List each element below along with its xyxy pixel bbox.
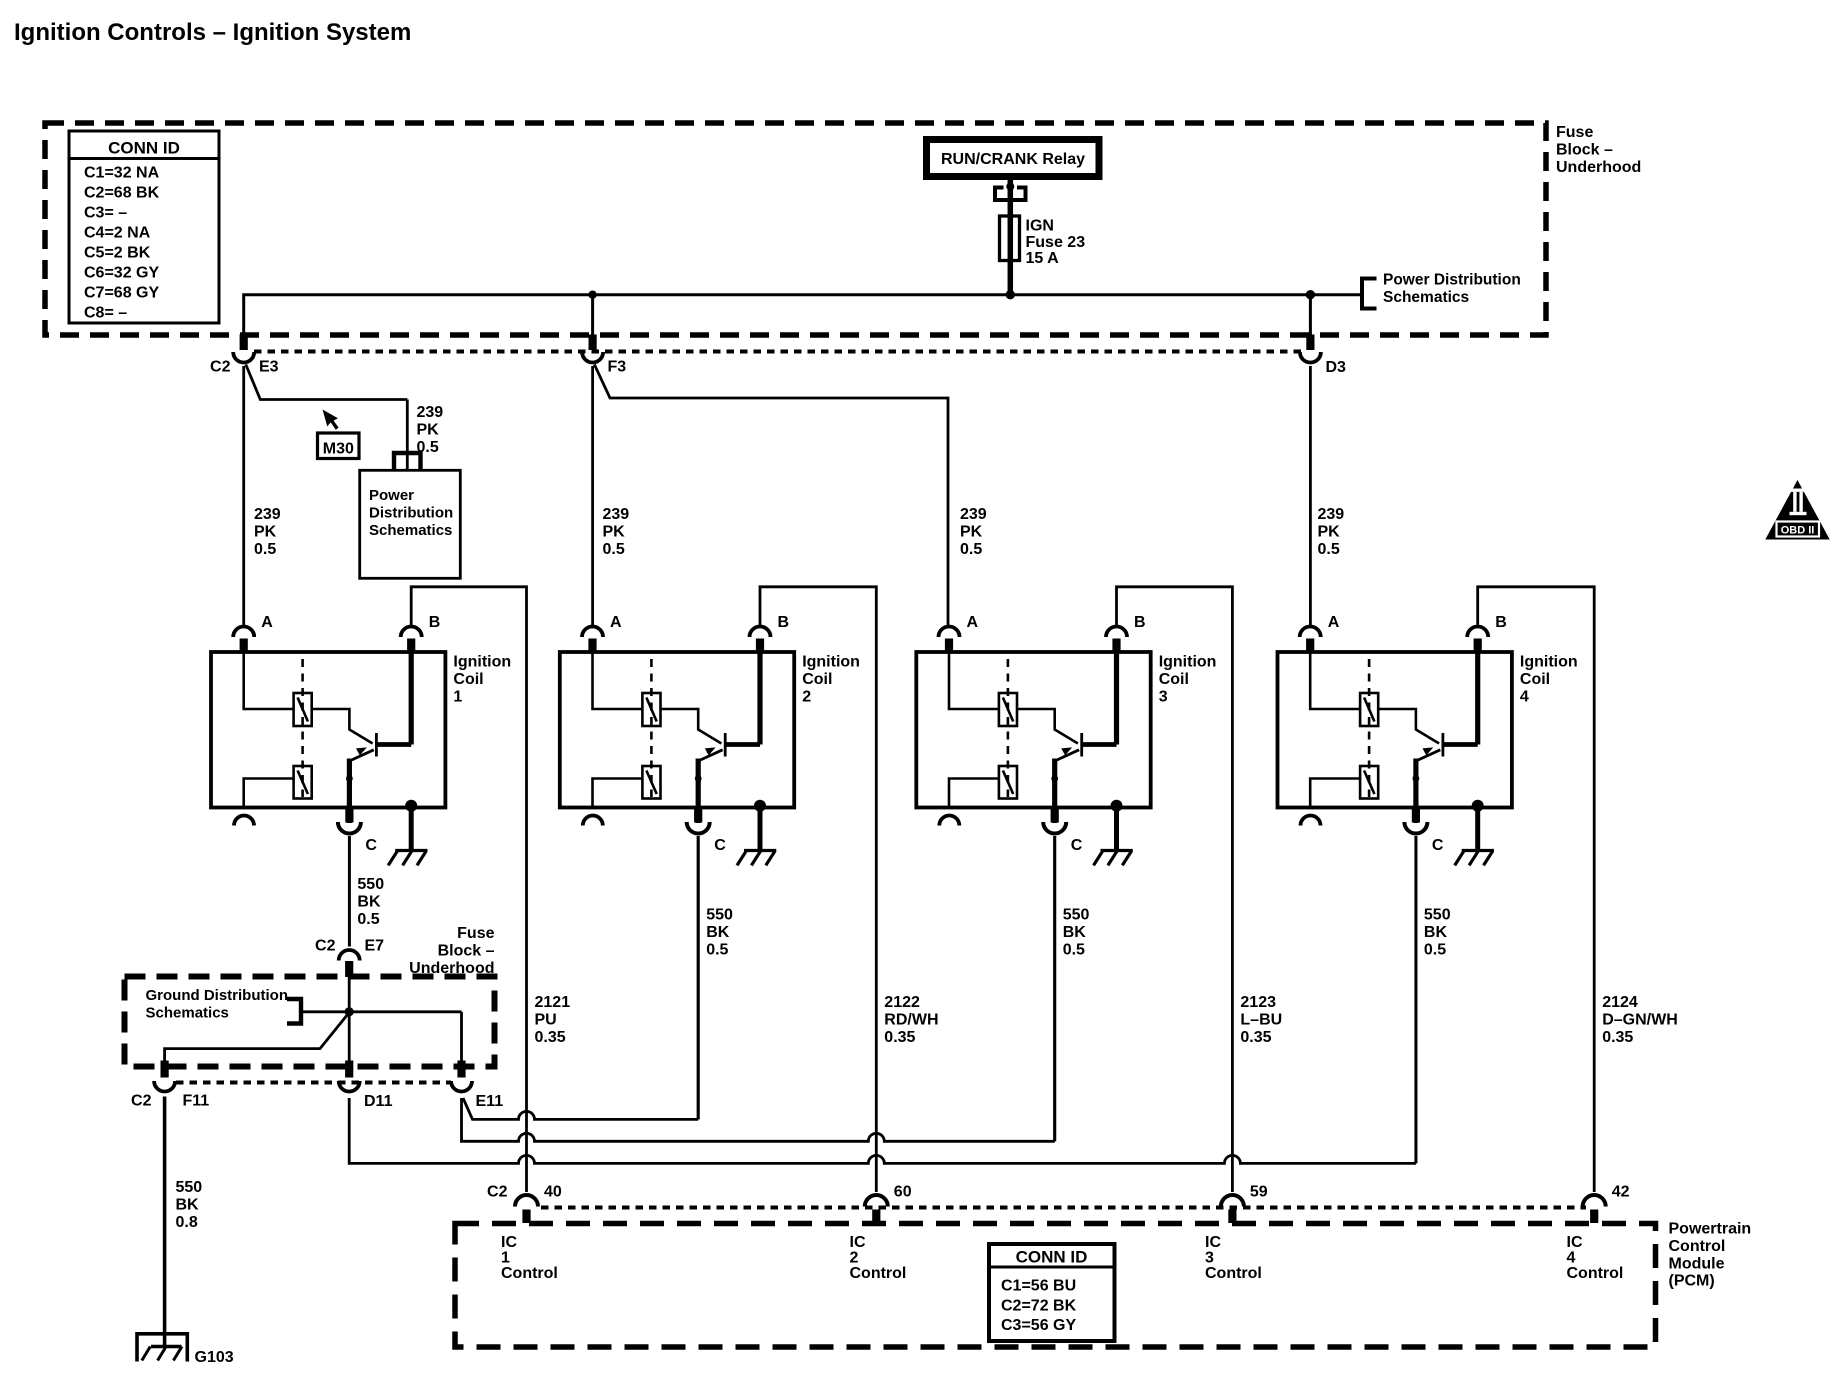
svg-text:60: 60 bbox=[894, 1184, 912, 1201]
svg-text:Module: Module bbox=[1669, 1255, 1725, 1272]
junction fuse output bbox=[1006, 290, 1015, 299]
svg-text:Control: Control bbox=[1567, 1265, 1624, 1282]
ignition coil 1 label bbox=[453, 654, 511, 706]
svg-text:C4=2 NA: C4=2 NA bbox=[84, 224, 151, 241]
svg-text:C2: C2 bbox=[315, 938, 336, 955]
label 239 PK 0.5 (coil 3 feed) bbox=[960, 506, 987, 558]
ignition coil 2 box bbox=[560, 652, 794, 808]
svg-text:239: 239 bbox=[417, 404, 444, 421]
svg-text:0.5: 0.5 bbox=[960, 541, 982, 558]
svg-text:PU: PU bbox=[535, 1011, 557, 1028]
power distribution schematics tab bbox=[1362, 272, 1521, 309]
svg-text:D3: D3 bbox=[1326, 359, 1347, 376]
fuse block underhood label (lower) bbox=[409, 925, 494, 977]
ignition coil 4 box bbox=[1278, 652, 1512, 808]
svg-text:C2: C2 bbox=[487, 1184, 508, 1201]
svg-text:A: A bbox=[967, 614, 979, 631]
svg-text:RUN/CRANK Relay: RUN/CRANK Relay bbox=[941, 151, 1085, 168]
svg-text:0.5: 0.5 bbox=[357, 911, 379, 928]
coil 3 pin C bbox=[1043, 809, 1083, 855]
wire E11 drop bbox=[460, 1012, 463, 1062]
coil 1 pin C bbox=[338, 809, 378, 855]
svg-text:0.5: 0.5 bbox=[1424, 941, 1446, 958]
svg-text:1: 1 bbox=[453, 688, 462, 705]
svg-text:0.5: 0.5 bbox=[1318, 541, 1340, 558]
svg-text:Ignition Controls – Ignition S: Ignition Controls – Ignition System bbox=[14, 19, 411, 46]
svg-text:550: 550 bbox=[176, 1179, 203, 1196]
coil 4 internal wire from B bbox=[1475, 652, 1480, 745]
svg-text:Distribution: Distribution bbox=[369, 504, 453, 521]
svg-text:Power: Power bbox=[369, 487, 414, 504]
transistor Q2 collector wire bbox=[661, 709, 722, 744]
wire 550 BK coil 2 ground drop bbox=[697, 836, 700, 1119]
svg-text:IC: IC bbox=[1205, 1234, 1221, 1251]
svg-text:RD/WH: RD/WH bbox=[884, 1011, 938, 1028]
wire coil 3 ground to E11 bbox=[462, 1098, 1055, 1141]
svg-text:C1=32 NA: C1=32 NA bbox=[84, 164, 160, 181]
svg-text:Ignition: Ignition bbox=[802, 654, 860, 671]
svg-text:BK: BK bbox=[1063, 924, 1087, 941]
ground distribution dashed boundary bbox=[125, 977, 495, 1067]
ignition coil 1 box bbox=[211, 652, 445, 808]
fuse block underhood label bbox=[1556, 124, 1641, 176]
coil 3 secondary output wire bbox=[949, 779, 999, 807]
coil 3 spare cavity bbox=[939, 816, 959, 826]
svg-text:E11: E11 bbox=[476, 1093, 504, 1110]
wire ignition control coil 3 (B loop) bbox=[1117, 587, 1233, 1192]
svg-text:Coil: Coil bbox=[1520, 671, 1550, 688]
svg-text:C7=68 GY: C7=68 GY bbox=[84, 284, 159, 301]
coil 2 emitter-secondary junction bbox=[695, 775, 702, 782]
svg-text:PK: PK bbox=[603, 523, 626, 540]
svg-text:Block –: Block – bbox=[438, 942, 495, 959]
wire coil 2 ground to E11 bbox=[463, 1098, 698, 1119]
wire ignition voltage bus bbox=[244, 295, 1311, 335]
svg-text:550: 550 bbox=[706, 907, 733, 924]
coil 3 primary winding bbox=[999, 693, 1017, 726]
svg-text:3: 3 bbox=[1159, 688, 1168, 705]
transistor Q3 base lead bbox=[1082, 742, 1117, 747]
svg-text:2123: 2123 bbox=[1240, 994, 1276, 1011]
terminal into power distribution box bbox=[394, 453, 421, 470]
connector C2 pin 42 (PCM) bbox=[1583, 1184, 1630, 1224]
coil 2 pin C bbox=[687, 809, 727, 855]
coil 2 secondary winding bbox=[642, 766, 660, 799]
svg-text:CONN ID: CONN ID bbox=[108, 139, 180, 158]
transistor Q3 collector wire bbox=[1017, 709, 1078, 744]
coil 3 pin A bbox=[939, 614, 979, 654]
transistor Q1 base lead bbox=[376, 742, 411, 747]
svg-text:Powertrain: Powertrain bbox=[1669, 1221, 1752, 1238]
svg-text:2122: 2122 bbox=[884, 994, 920, 1011]
coil 4 internal ground wire bbox=[1472, 800, 1484, 850]
svg-text:PK: PK bbox=[960, 523, 983, 540]
ground G103 bbox=[137, 1334, 234, 1366]
svg-text:15 A: 15 A bbox=[1026, 250, 1060, 267]
svg-text:CONN ID: CONN ID bbox=[1016, 1248, 1088, 1267]
svg-text:C: C bbox=[1071, 837, 1083, 854]
ignition coil 3 box bbox=[916, 652, 1150, 808]
wire coil 2 ground vertical bbox=[697, 836, 700, 1119]
svg-text:239: 239 bbox=[960, 506, 987, 523]
wire coil 3 ground vertical bbox=[1053, 836, 1056, 1141]
coil 2 ground bbox=[737, 851, 776, 866]
svg-text:Underhood: Underhood bbox=[1556, 159, 1641, 176]
label 550 BK 0.5 (coil 1) bbox=[357, 876, 384, 928]
svg-text:4: 4 bbox=[1567, 1250, 1576, 1267]
wire 550 BK to G103 bbox=[163, 1097, 167, 1347]
label 2122 RD/WH 0.35 bbox=[884, 994, 938, 1046]
coil 1 internal wire from A bbox=[244, 653, 294, 709]
coil 4 primary winding bbox=[1360, 693, 1378, 726]
svg-text:Coil: Coil bbox=[802, 671, 832, 688]
svg-text:E7: E7 bbox=[365, 938, 385, 955]
wire 239 PK to coil 2 A bbox=[591, 366, 594, 626]
connector id table (PCM) bbox=[989, 1244, 1115, 1341]
svg-text:239: 239 bbox=[1318, 506, 1345, 523]
svg-text:2: 2 bbox=[850, 1250, 859, 1267]
transistor Q4 emitter bbox=[1416, 747, 1440, 823]
svg-text:PK: PK bbox=[254, 523, 277, 540]
svg-text:IC: IC bbox=[850, 1234, 866, 1251]
svg-text:PK: PK bbox=[417, 421, 440, 438]
coil 1 internal ground wire bbox=[405, 800, 417, 850]
ignition coil 3 label bbox=[1159, 654, 1217, 706]
svg-text:550: 550 bbox=[357, 876, 384, 893]
svg-text:Control: Control bbox=[1205, 1265, 1262, 1282]
powertrain control module label bbox=[1669, 1221, 1752, 1290]
coil 2 primary winding bbox=[642, 693, 660, 726]
coil 3 internal wire from B bbox=[1114, 652, 1119, 745]
svg-text:3: 3 bbox=[1205, 1250, 1214, 1267]
svg-text:D11: D11 bbox=[364, 1093, 393, 1110]
transistor Q2 base bar bbox=[724, 733, 727, 757]
svg-text:BK: BK bbox=[706, 924, 730, 941]
label IC 3 control bbox=[1205, 1234, 1262, 1282]
fuse IGN Fuse 23 15A bbox=[1000, 216, 1086, 295]
coil 1 emitter-secondary junction bbox=[346, 775, 353, 782]
coil 2 internal wire from B bbox=[757, 652, 762, 745]
coil 1 core (dashed) bbox=[301, 659, 304, 797]
svg-text:C: C bbox=[365, 837, 377, 854]
ground distribution schematics label bbox=[146, 987, 288, 1021]
svg-text:Power Distribution: Power Distribution bbox=[1383, 272, 1521, 289]
wire 239 PK to coil 1 A bbox=[242, 366, 245, 626]
svg-text:C2: C2 bbox=[131, 1093, 152, 1110]
svg-text:4: 4 bbox=[1520, 688, 1529, 705]
wire 550 BK coil 1 to E7 bbox=[348, 836, 351, 947]
power distribution schematics box bbox=[360, 470, 461, 578]
coil 1 pin B bbox=[401, 614, 441, 654]
svg-text:C: C bbox=[714, 837, 726, 854]
svg-text:C5=2 BK: C5=2 BK bbox=[84, 244, 151, 261]
wire ignition control coil 1 (B loop) bbox=[411, 587, 526, 1192]
coil 2 pin B bbox=[750, 614, 790, 654]
junction ground distribution bbox=[345, 1007, 354, 1016]
wire 550 BK coil 3 ground drop bbox=[1053, 836, 1056, 1141]
connector C2 cavity F11 bbox=[131, 1061, 209, 1110]
coil 1 pin A bbox=[233, 614, 273, 654]
transistor Q4 base lead bbox=[1443, 742, 1478, 747]
label 239 PK 0.5 (coil 1 feed) bbox=[254, 506, 281, 558]
svg-text:BK: BK bbox=[176, 1196, 200, 1213]
svg-text:Control: Control bbox=[501, 1265, 558, 1282]
svg-text:0.35: 0.35 bbox=[1602, 1029, 1633, 1046]
coil 4 internal wire from A bbox=[1310, 653, 1360, 709]
svg-text:0.35: 0.35 bbox=[535, 1029, 566, 1046]
svg-text:C3=56 GY: C3=56 GY bbox=[1001, 1317, 1076, 1334]
transistor Q2 base lead bbox=[725, 742, 760, 747]
coil 2 internal ground wire bbox=[754, 800, 766, 850]
svg-text:Ignition: Ignition bbox=[1159, 654, 1217, 671]
svg-text:Schematics: Schematics bbox=[146, 1004, 229, 1021]
coil 1 internal wire from B bbox=[409, 652, 414, 745]
svg-text:BK: BK bbox=[1424, 924, 1448, 941]
connector face C2 dotted line (ground) bbox=[176, 1081, 451, 1085]
wire 239 PK to coil 4 A bbox=[1309, 366, 1312, 626]
svg-text:Fuse 23: Fuse 23 bbox=[1026, 234, 1086, 251]
coil 3 secondary winding bbox=[999, 766, 1017, 799]
svg-text:1: 1 bbox=[501, 1250, 510, 1267]
coil 2 internal wire from A bbox=[593, 653, 643, 709]
svg-text:2121: 2121 bbox=[535, 994, 571, 1011]
junction D3 tap bbox=[1306, 290, 1315, 299]
svg-text:2: 2 bbox=[802, 688, 811, 705]
coil 4 secondary output wire bbox=[1310, 779, 1360, 807]
coil 4 pin C bbox=[1404, 809, 1444, 855]
fuse block underhood dashed boundary bbox=[45, 123, 1546, 335]
svg-text:Schematics: Schematics bbox=[369, 522, 452, 539]
coil 2 core (dashed) bbox=[650, 659, 653, 797]
svg-text:0.5: 0.5 bbox=[603, 541, 625, 558]
svg-text:0.5: 0.5 bbox=[254, 541, 276, 558]
label IC 4 control bbox=[1567, 1234, 1624, 1282]
svg-text:0.8: 0.8 bbox=[176, 1214, 198, 1231]
coil 3 ground bbox=[1094, 851, 1133, 866]
splice M30 arrow bbox=[323, 410, 339, 430]
coil 4 pin B bbox=[1467, 614, 1507, 654]
wire coil 4 ground vertical bbox=[1415, 836, 1418, 1163]
coil 4 ground bbox=[1455, 851, 1494, 866]
label 550 BK 0.8 bbox=[176, 1179, 203, 1231]
ignition coil 2 label bbox=[802, 654, 860, 706]
wire ground distribution bus bbox=[301, 1010, 462, 1013]
svg-text:C2: C2 bbox=[210, 359, 231, 376]
svg-text:59: 59 bbox=[1250, 1184, 1268, 1201]
svg-text:B: B bbox=[1134, 614, 1146, 631]
svg-text:C8= –: C8= – bbox=[84, 304, 127, 321]
label 239 PK 0.5 (splice branch) bbox=[417, 404, 444, 456]
connector C2 cavity D3 bbox=[1300, 335, 1346, 377]
coil 1 secondary winding bbox=[294, 766, 312, 799]
connector C2 cavity E3 bbox=[210, 335, 279, 376]
coil 4 emitter-secondary junction bbox=[1413, 775, 1420, 782]
svg-text:550: 550 bbox=[1424, 907, 1451, 924]
connector C2 cavity E11 bbox=[451, 1061, 503, 1111]
coil 1 secondary output wire bbox=[244, 779, 294, 807]
svg-text:M30: M30 bbox=[323, 441, 354, 458]
svg-text:A: A bbox=[261, 614, 273, 631]
svg-text:E3: E3 bbox=[259, 359, 279, 376]
label 2121 PU 0.35 bbox=[535, 994, 571, 1046]
svg-text:C2=72 BK: C2=72 BK bbox=[1001, 1297, 1077, 1314]
coil 4 secondary winding bbox=[1360, 766, 1378, 799]
coil 1 spare cavity bbox=[234, 816, 254, 826]
svg-text:IC: IC bbox=[501, 1234, 517, 1251]
coil 3 emitter-secondary junction bbox=[1051, 775, 1058, 782]
label 239 PK 0.5 (coil 2 feed) bbox=[603, 506, 630, 558]
wire F11 branch bbox=[165, 1013, 350, 1062]
svg-text:A: A bbox=[610, 614, 622, 631]
svg-text:PK: PK bbox=[1318, 523, 1341, 540]
svg-text:Ignition: Ignition bbox=[453, 654, 511, 671]
svg-text:Ground Distribution: Ground Distribution bbox=[146, 987, 288, 1004]
ignition coil 4 label bbox=[1520, 654, 1578, 706]
svg-text:B: B bbox=[1495, 614, 1507, 631]
coil 1 ground bbox=[388, 851, 427, 866]
wire F3 branch to coil 3 A bbox=[594, 365, 948, 626]
svg-text:F3: F3 bbox=[608, 359, 627, 376]
svg-text:IGN: IGN bbox=[1026, 218, 1054, 235]
coil 3 pin B bbox=[1106, 614, 1146, 654]
connector C2 cavity E7 bbox=[315, 938, 384, 978]
svg-text:239: 239 bbox=[603, 506, 630, 523]
wire coil 4 ground to D11 bbox=[349, 1098, 1416, 1163]
coil 3 internal wire from A bbox=[949, 653, 999, 709]
svg-text:(PCM): (PCM) bbox=[1669, 1273, 1715, 1290]
wire E7 to D11 bbox=[348, 977, 351, 1062]
relay output terminal bbox=[995, 177, 1026, 217]
wire to power distribution tab bbox=[1310, 293, 1362, 296]
label 550 BK 0.5 (coil 3) bbox=[1063, 907, 1090, 959]
svg-text:C1=56 BU: C1=56 BU bbox=[1001, 1278, 1076, 1295]
svg-text:0.5: 0.5 bbox=[706, 941, 728, 958]
coil 3 internal ground wire bbox=[1111, 800, 1123, 850]
svg-text:C: C bbox=[1432, 837, 1444, 854]
svg-text:G103: G103 bbox=[195, 1349, 234, 1366]
connector face C2 dotted line (fuse block) bbox=[254, 350, 1301, 354]
wire splice to power distribution bbox=[406, 400, 409, 471]
svg-text:B: B bbox=[778, 614, 790, 631]
transistor Q1 base bar bbox=[375, 733, 378, 757]
connector id table C2 (fuse block) bbox=[69, 131, 219, 323]
transistor Q1 emitter bbox=[349, 747, 373, 823]
connector C2 pin 60 (PCM) bbox=[865, 1184, 912, 1224]
transistor Q2 emitter bbox=[698, 747, 722, 823]
coil 4 pin A bbox=[1300, 614, 1340, 654]
svg-text:B: B bbox=[429, 614, 441, 631]
svg-text:C6=32 GY: C6=32 GY bbox=[84, 264, 159, 281]
transistor Q4 collector wire bbox=[1378, 709, 1439, 744]
svg-text:0.35: 0.35 bbox=[884, 1029, 915, 1046]
svg-text:Control: Control bbox=[1669, 1238, 1726, 1255]
transistor Q4 base bar bbox=[1442, 733, 1445, 757]
svg-text:Coil: Coil bbox=[1159, 671, 1189, 688]
coil 4 spare cavity bbox=[1301, 816, 1321, 826]
wire 550 BK coil 4 ground drop bbox=[1414, 836, 1417, 1163]
svg-text:2124: 2124 bbox=[1602, 994, 1638, 1011]
coil 4 core (dashed) bbox=[1368, 659, 1371, 797]
svg-text:Ignition: Ignition bbox=[1520, 654, 1578, 671]
svg-text:550: 550 bbox=[1063, 907, 1090, 924]
transistor Q3 emitter bbox=[1055, 747, 1079, 823]
connector face C2 dotted line (PCM) bbox=[541, 1206, 1586, 1210]
svg-text:Schematics: Schematics bbox=[1383, 289, 1469, 306]
diagram title bbox=[14, 19, 411, 46]
svg-text:40: 40 bbox=[544, 1184, 562, 1201]
coil 2 spare cavity bbox=[583, 816, 603, 826]
svg-text:Coil: Coil bbox=[453, 671, 483, 688]
connector C2 pin 59 (PCM) bbox=[1221, 1184, 1268, 1224]
svg-text:C3= –: C3= – bbox=[84, 204, 127, 221]
svg-text:Fuse: Fuse bbox=[1556, 124, 1593, 141]
label 239 PK 0.5 (coil 4 feed) bbox=[1318, 506, 1345, 558]
connector C2 cavity F3 bbox=[582, 335, 626, 376]
label IC 2 control bbox=[850, 1234, 907, 1282]
wire ignition control coil 2 (B loop) bbox=[760, 587, 876, 1192]
svg-text:C2=68 BK: C2=68 BK bbox=[84, 184, 160, 201]
svg-text:A: A bbox=[1328, 614, 1340, 631]
svg-text:Block –: Block – bbox=[1556, 141, 1613, 158]
svg-text:F11: F11 bbox=[183, 1093, 210, 1110]
coil 2 pin A bbox=[582, 614, 622, 654]
connector C2 pin 40 (PCM) bbox=[487, 1184, 562, 1224]
connector C2 cavity D11 bbox=[339, 1061, 393, 1111]
svg-text:0.35: 0.35 bbox=[1240, 1029, 1271, 1046]
transistor Q1 collector wire bbox=[312, 709, 373, 744]
transistor Q3 base bar bbox=[1080, 733, 1083, 757]
svg-text:BK: BK bbox=[357, 893, 381, 910]
wire ignition control coil 4 (B loop) bbox=[1478, 587, 1595, 1192]
label 550 BK 0.5 (coil 4) bbox=[1424, 907, 1451, 959]
RUN/CRANK relay bbox=[927, 140, 1100, 177]
ground distribution schematics tab bbox=[287, 999, 301, 1024]
splice M30 label box bbox=[318, 433, 360, 459]
coil 2 secondary output wire bbox=[593, 779, 643, 807]
svg-text:OBD II: OBD II bbox=[1781, 525, 1815, 537]
junction F3 tap bbox=[588, 291, 596, 299]
svg-text:Control: Control bbox=[850, 1265, 907, 1282]
svg-text:0.5: 0.5 bbox=[1063, 941, 1085, 958]
svg-text:IC: IC bbox=[1567, 1234, 1583, 1251]
svg-text:42: 42 bbox=[1612, 1184, 1630, 1201]
svg-text:Fuse: Fuse bbox=[457, 925, 494, 942]
label IC 1 control bbox=[501, 1234, 558, 1282]
svg-text:L–BU: L–BU bbox=[1240, 1011, 1282, 1028]
wire E3 branch to splice bbox=[246, 365, 407, 400]
OBD II marker bbox=[1765, 480, 1829, 540]
coil 3 core (dashed) bbox=[1007, 659, 1010, 797]
powertrain control module dashed boundary bbox=[455, 1224, 1656, 1348]
svg-text:D–GN/WH: D–GN/WH bbox=[1602, 1011, 1678, 1028]
label 2124 D–GN/WH 0.35 bbox=[1602, 994, 1678, 1046]
coil 1 primary winding bbox=[294, 693, 312, 726]
label 550 BK 0.5 (coil 2) bbox=[706, 907, 733, 959]
label 2123 L–BU 0.35 bbox=[1240, 994, 1282, 1046]
svg-text:239: 239 bbox=[254, 506, 281, 523]
